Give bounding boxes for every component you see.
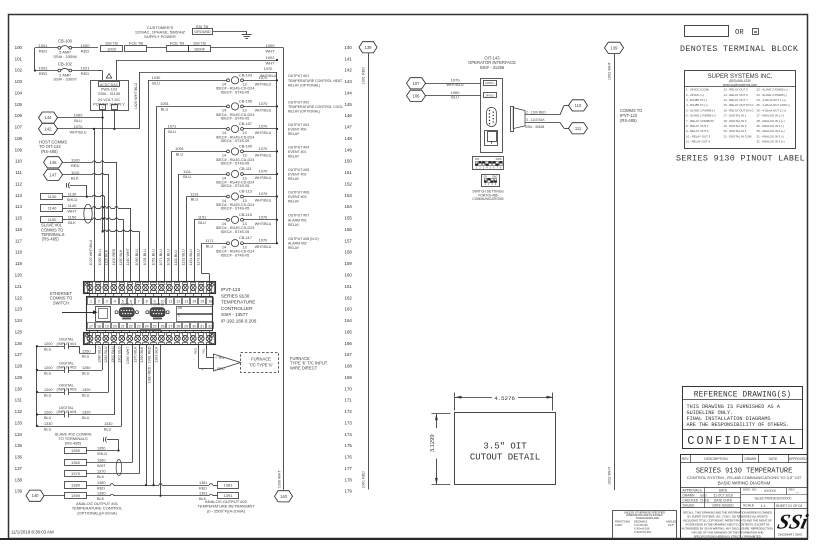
svg-text:155: 155 bbox=[345, 216, 353, 221]
svg-text:110: 110 bbox=[575, 103, 582, 108]
svg-text:DWG. NO.: DWG. NO. bbox=[743, 488, 757, 492]
svg-text:1070: 1070 bbox=[259, 238, 268, 243]
svg-text:REFERENCE DRAWING(S): REFERENCE DRAWING(S) bbox=[694, 392, 792, 400]
svg-text:147: 147 bbox=[50, 172, 58, 177]
svg-text:EVENT #01: EVENT #01 bbox=[288, 150, 306, 154]
svg-text:BLU: BLU bbox=[44, 427, 52, 431]
svg-text:1031 BLU: 1031 BLU bbox=[143, 249, 147, 266]
svg-text:1280: 1280 bbox=[82, 366, 90, 370]
svg-text:RELAY: RELAY bbox=[288, 154, 300, 158]
svg-text:WHT: WHT bbox=[97, 464, 106, 468]
svg-text:1360 WHT: 1360 WHT bbox=[126, 346, 130, 364]
svg-text:SSI# - 33097: SSI# - 33097 bbox=[53, 77, 77, 82]
svg-text:SSI TB: SSI TB bbox=[196, 24, 209, 29]
svg-text:RELAY: RELAY bbox=[288, 177, 300, 181]
svg-text:165: 165 bbox=[345, 329, 353, 334]
svg-text:1111 BLU: 1111 BLU bbox=[174, 250, 178, 266]
svg-text:AUTHORIZED BY SSI IN WRITING,: AUTHORIZED BY SSI IN WRITING, ANY DISCLO… bbox=[682, 527, 774, 531]
svg-text:BLU: BLU bbox=[82, 393, 90, 397]
svg-text:BLU: BLU bbox=[451, 96, 459, 100]
svg-text:22 - SLAVE 2 RS485 (+): 22 - SLAVE 2 RS485 (+) bbox=[757, 88, 788, 92]
svg-text:OUTPUT #01: OUTPUT #01 bbox=[288, 74, 309, 78]
svg-text:6 - SLAVE 1 RS485 (+): 6 - SLAVE 1 RS485 (+) bbox=[686, 114, 716, 118]
svg-text:WHT/BLU: WHT/BLU bbox=[255, 245, 272, 249]
svg-text:142: 142 bbox=[345, 68, 353, 73]
svg-text:18 - DIGITAL IN 2: 18 - DIGITAL IN 2 bbox=[724, 119, 747, 123]
svg-text:SERIES 9130: SERIES 9130 bbox=[221, 293, 250, 298]
svg-text:144: 144 bbox=[45, 115, 53, 120]
svg-text:108: 108 bbox=[15, 136, 23, 141]
svg-text:112: 112 bbox=[15, 181, 23, 186]
svg-text:102: 102 bbox=[15, 68, 23, 73]
svg-text:SERIES 9130 PINOUT LABEL: SERIES 9130 PINOUT LABEL bbox=[676, 154, 805, 164]
svg-text:(INPUT #04: (INPUT #04 bbox=[57, 410, 77, 414]
svg-text:(INPUT #02: (INPUT #02 bbox=[57, 366, 77, 370]
svg-text:WHT: WHT bbox=[265, 60, 275, 65]
svg-text:CHECKED: CHECKED bbox=[683, 499, 699, 503]
svg-text:SSI TB: SSI TB bbox=[105, 40, 118, 45]
svg-text:SSI TB: SSI TB bbox=[193, 40, 206, 45]
svg-text:TEMPERATURE CONTROL COOL: TEMPERATURE CONTROL COOL bbox=[288, 105, 343, 109]
svg-text:APPROVALS: APPROVALS bbox=[683, 488, 702, 492]
svg-text:1110 BLK: 1110 BLK bbox=[104, 249, 108, 265]
svg-text:SSI# - 33096: SSI# - 33096 bbox=[53, 54, 77, 59]
svg-text:175: 175 bbox=[345, 443, 353, 448]
svg-text:136: 136 bbox=[15, 455, 23, 460]
svg-text:1030: 1030 bbox=[152, 75, 161, 80]
svg-text:150: 150 bbox=[345, 159, 353, 164]
svg-text:SSi: SSi bbox=[775, 510, 810, 534]
svg-text:1 - 24VDC (COM): 1 - 24VDC (COM) bbox=[686, 88, 709, 92]
svg-text:CB-105: CB-105 bbox=[239, 98, 252, 103]
svg-text:SCALE: SCALE bbox=[743, 503, 755, 507]
svg-text:BLU: BLU bbox=[82, 371, 90, 375]
svg-text:C: C bbox=[178, 315, 180, 318]
svg-text:3: 3 bbox=[106, 300, 108, 304]
svg-text:164: 164 bbox=[345, 318, 353, 323]
svg-text:+: + bbox=[202, 368, 204, 372]
svg-text:1070: 1070 bbox=[259, 191, 268, 196]
svg-text:OR USE OF THIS DRAWING OR THE: OR USE OF THIS DRAWING OR THE INFORMATIO… bbox=[692, 531, 764, 535]
svg-text:BLU: BLU bbox=[44, 393, 52, 397]
svg-text:146: 146 bbox=[345, 113, 353, 118]
svg-text:1: 1 bbox=[90, 300, 92, 304]
svg-text:1111: 1111 bbox=[183, 169, 191, 174]
svg-text:101: 101 bbox=[15, 56, 23, 61]
svg-text:11 - RELAY OUT 4: 11 - RELAY OUT 4 bbox=[686, 140, 710, 144]
svg-text:OUTPUT #08 (N.O): OUTPUT #08 (N.O) bbox=[288, 237, 319, 241]
svg-text:109: 109 bbox=[15, 147, 23, 152]
svg-text:SSI# - 30628: SSI# - 30628 bbox=[525, 125, 544, 129]
svg-text:134: 134 bbox=[15, 432, 23, 437]
svg-text:IDEC# - ST4S-05: IDEC# - ST4S-05 bbox=[221, 230, 250, 234]
svg-text:1000: 1000 bbox=[81, 43, 91, 48]
svg-text:156: 156 bbox=[345, 227, 353, 232]
svg-text:1390: 1390 bbox=[97, 492, 105, 496]
svg-text:WHT/BLU: WHT/BLU bbox=[255, 153, 272, 157]
svg-text:DESCRIPTION: DESCRIPTION bbox=[704, 457, 728, 461]
svg-text:1020 WHT/BLU: 1020 WHT/BLU bbox=[89, 239, 93, 265]
svg-text:29 - ANALOG IN 2 (-): 29 - ANALOG IN 2 (-) bbox=[757, 124, 785, 128]
svg-text:1300: 1300 bbox=[82, 388, 90, 392]
svg-text:WHT/BLU: WHT/BLU bbox=[255, 108, 272, 112]
svg-text:1151 BLU: 1151 BLU bbox=[189, 249, 193, 265]
svg-text:122: 122 bbox=[15, 295, 23, 300]
svg-text:±0.5°: ±0.5° bbox=[668, 523, 674, 527]
svg-text:OR: OR bbox=[735, 29, 744, 37]
svg-text:—: — bbox=[795, 490, 799, 494]
svg-text:1071: 1071 bbox=[168, 124, 177, 129]
svg-text:1070: 1070 bbox=[259, 146, 268, 151]
svg-text:11: 11 bbox=[169, 300, 173, 304]
svg-text:CUTOUT DETAIL: CUTOUT DETAIL bbox=[470, 452, 540, 462]
svg-text:30: 30 bbox=[192, 324, 196, 328]
svg-text:172: 172 bbox=[345, 409, 353, 414]
svg-text:CONTROLLER: CONTROLLER bbox=[221, 306, 253, 311]
svg-text:24VDC-: 24VDC- bbox=[485, 94, 494, 98]
svg-text:13: 13 bbox=[184, 300, 188, 304]
svg-text:18: 18 bbox=[97, 324, 101, 328]
svg-text:BLK: BLK bbox=[97, 475, 105, 479]
svg-text:10 - RELAY OUT 3: 10 - RELAY OUT 3 bbox=[686, 134, 711, 138]
svg-text:1070: 1070 bbox=[259, 75, 268, 80]
svg-text:WHT/BLU: WHT/BLU bbox=[255, 199, 272, 203]
svg-text:1200: 1200 bbox=[44, 366, 52, 370]
svg-text:147: 147 bbox=[345, 125, 353, 130]
svg-text:1320: 1320 bbox=[82, 411, 90, 415]
svg-text:22: 22 bbox=[129, 324, 133, 328]
svg-text:15: 15 bbox=[200, 300, 204, 304]
svg-text:168: 168 bbox=[345, 364, 353, 369]
svg-text:116: 116 bbox=[15, 227, 23, 232]
svg-text:FRACTIONS: FRACTIONS bbox=[615, 519, 630, 523]
svg-text:19 - DIGITAL IN 3: 19 - DIGITAL IN 3 bbox=[724, 124, 747, 128]
svg-text:1171 BLU: 1171 BLU bbox=[197, 249, 201, 265]
svg-text:1002 WHT: 1002 WHT bbox=[608, 466, 612, 485]
svg-text:1130: 1130 bbox=[68, 192, 77, 197]
svg-text:SHEET 01 OF 02: SHEET 01 OF 02 bbox=[776, 504, 802, 508]
svg-text:OUTPUT #06: OUTPUT #06 bbox=[288, 190, 309, 194]
svg-text:EVENT #02: EVENT #02 bbox=[288, 172, 306, 176]
svg-text:RECALL: THIS DRAWING AND THE I: RECALL: THIS DRAWING AND THE INFORMATION… bbox=[683, 510, 772, 514]
svg-text:POWER SUPPLY: POWER SUPPLY bbox=[93, 102, 125, 107]
svg-text:1290 BLK: 1290 BLK bbox=[140, 346, 144, 363]
svg-text:128: 128 bbox=[15, 364, 23, 369]
svg-text:OUTPUT #04: OUTPUT #04 bbox=[288, 145, 309, 149]
svg-text:BLU: BLU bbox=[176, 152, 184, 157]
svg-text:153: 153 bbox=[345, 193, 353, 198]
svg-text:EVENT #00: EVENT #00 bbox=[288, 127, 306, 131]
svg-text:1380: 1380 bbox=[71, 483, 81, 488]
svg-text:1001 RED: 1001 RED bbox=[362, 471, 366, 489]
svg-text:CB-107: CB-107 bbox=[239, 121, 252, 126]
svg-text:(RS-485): (RS-485) bbox=[42, 237, 59, 242]
svg-text:X.XX=±0.010: X.XX=±0.010 bbox=[634, 526, 650, 530]
svg-text:1200: 1200 bbox=[44, 411, 52, 415]
svg-text:CB-103: CB-103 bbox=[239, 72, 252, 77]
svg-text:WHT: WHT bbox=[265, 48, 275, 53]
svg-text:RED: RED bbox=[71, 163, 80, 168]
svg-text:1391 BLK: 1391 BLK bbox=[155, 346, 159, 363]
svg-text:SSI# - 13577: SSI# - 13577 bbox=[221, 312, 248, 317]
svg-text:BASIC WIRING DIAGRAM: BASIC WIRING DIAGRAM bbox=[718, 481, 771, 486]
svg-text:CB-109: CB-109 bbox=[239, 143, 252, 148]
svg-text:1070: 1070 bbox=[259, 101, 268, 106]
svg-text:BLU: BLU bbox=[161, 107, 169, 112]
svg-text:DATE: DATE bbox=[719, 488, 727, 492]
svg-text:ALARM #02: ALARM #02 bbox=[288, 242, 307, 246]
svg-text:ACDC'DAC: ACDC'DAC bbox=[100, 83, 119, 87]
svg-text:SWITCH: SWITCH bbox=[53, 300, 69, 305]
svg-text:20: 20 bbox=[113, 324, 117, 328]
svg-text:1282 BLU: 1282 BLU bbox=[104, 346, 108, 363]
svg-text:485: 485 bbox=[178, 307, 183, 310]
svg-text:RED: RED bbox=[193, 347, 197, 354]
svg-text:1370 BLK: 1370 BLK bbox=[134, 346, 138, 363]
svg-text:RELAY: RELAY bbox=[288, 132, 300, 136]
svg-text:IDEC# - ST4S-05: IDEC# - ST4S-05 bbox=[221, 162, 250, 166]
svg-text:GROUND: GROUND bbox=[194, 30, 211, 34]
svg-text:159: 159 bbox=[345, 261, 353, 266]
svg-text:1350: 1350 bbox=[97, 447, 105, 451]
svg-text:143: 143 bbox=[345, 79, 353, 84]
svg-text:1110: 1110 bbox=[71, 170, 80, 175]
svg-text:1000F: 1000F bbox=[194, 46, 206, 51]
svg-text:141: 141 bbox=[345, 56, 353, 61]
svg-text:25: 25 bbox=[153, 324, 157, 328]
svg-text:DRAWN: DRAWN bbox=[683, 493, 696, 497]
svg-text:SSI# - 31135: SSI# - 31135 bbox=[98, 92, 120, 96]
svg-text:1260: 1260 bbox=[82, 349, 90, 353]
svg-text:1000: 1000 bbox=[266, 43, 276, 48]
svg-text:1051: 1051 bbox=[160, 101, 169, 106]
svg-text:2: 2 bbox=[98, 300, 100, 304]
svg-text:176: 176 bbox=[345, 455, 353, 460]
svg-text:1100: 1100 bbox=[71, 157, 80, 162]
svg-text:32: 32 bbox=[208, 324, 212, 328]
svg-text:21: 21 bbox=[121, 324, 125, 328]
svg-text:1360: 1360 bbox=[97, 458, 105, 462]
svg-text:115: 115 bbox=[15, 216, 23, 221]
svg-text:160: 160 bbox=[345, 273, 353, 278]
svg-text:FCE TB: FCE TB bbox=[170, 40, 184, 45]
svg-text:145: 145 bbox=[345, 102, 353, 107]
svg-text:19: 19 bbox=[105, 324, 109, 328]
svg-text:167: 167 bbox=[345, 352, 353, 357]
svg-text:(0 - 2500°F)(4-20mA): (0 - 2500°F)(4-20mA) bbox=[207, 508, 246, 513]
svg-text:151: 151 bbox=[345, 170, 353, 175]
svg-text:111: 111 bbox=[575, 126, 582, 131]
svg-text:12 - RELAY OUT 5: 12 - RELAY OUT 5 bbox=[724, 88, 749, 92]
svg-text:31: 31 bbox=[200, 324, 204, 328]
svg-text:29: 29 bbox=[184, 324, 188, 328]
svg-text:166: 166 bbox=[345, 341, 353, 346]
svg-text:CONTROL SYSTEM - RS-485 COMMUN: CONTROL SYSTEM - RS-485 COMMUNICATIONS T… bbox=[687, 475, 802, 480]
svg-text:±1/64": ±1/64" bbox=[615, 523, 622, 527]
svg-text:CB-100: CB-100 bbox=[58, 39, 73, 44]
svg-text:1001: 1001 bbox=[39, 66, 49, 71]
svg-text:RELAY (OPTIONAL): RELAY (OPTIONAL) bbox=[288, 83, 320, 87]
svg-text:1150 BLK: 1150 BLK bbox=[119, 249, 123, 265]
svg-text:1000: 1000 bbox=[107, 46, 117, 51]
svg-text:16 - RELAY OUT 8 N.O: 16 - RELAY OUT 8 N.O bbox=[724, 108, 755, 112]
svg-text:148: 148 bbox=[345, 136, 353, 141]
svg-text:145: 145 bbox=[50, 160, 58, 165]
svg-text:1140: 1140 bbox=[48, 206, 57, 211]
svg-text:SUPPLY POWER: SUPPLY POWER bbox=[144, 34, 176, 39]
svg-text:ALARM #01: ALARM #01 bbox=[288, 218, 307, 222]
svg-text:117: 117 bbox=[15, 238, 23, 243]
svg-text:RELAY: RELAY bbox=[288, 246, 300, 250]
svg-text:RED: RED bbox=[199, 487, 207, 491]
svg-text:IP-192.168.0.200: IP-192.168.0.200 bbox=[221, 319, 257, 324]
svg-text:32 - ANALOG IN 3 (+): 32 - ANALOG IN 3 (+) bbox=[757, 140, 785, 144]
svg-text:8: 8 bbox=[146, 300, 148, 304]
svg-text:IDEC# - ST4S-05: IDEC# - ST4S-05 bbox=[221, 207, 250, 211]
svg-text:DECIMALS: DECIMALS bbox=[634, 519, 648, 523]
svg-text:BLU: BLU bbox=[82, 416, 90, 420]
svg-text:1380: 1380 bbox=[97, 481, 105, 485]
svg-text:144: 144 bbox=[345, 90, 353, 95]
svg-text:169: 169 bbox=[345, 375, 353, 380]
svg-text:BLU: BLU bbox=[198, 220, 206, 225]
svg-text:REV.: REV. bbox=[682, 457, 689, 461]
svg-text:DATE CHKD: DATE CHKD bbox=[714, 499, 733, 503]
svg-text:1021: 1021 bbox=[81, 66, 91, 71]
svg-text:23: 23 bbox=[137, 324, 141, 328]
svg-text:1381: 1381 bbox=[199, 481, 207, 485]
svg-text:XXXXX: XXXXX bbox=[764, 489, 777, 493]
svg-text:113: 113 bbox=[15, 193, 23, 198]
svg-text:1130: 1130 bbox=[48, 194, 57, 199]
svg-text:1370: 1370 bbox=[71, 471, 81, 476]
svg-text:1391: 1391 bbox=[224, 493, 234, 498]
svg-text:170: 170 bbox=[345, 386, 353, 391]
svg-text:1020 WHT/BLU: 1020 WHT/BLU bbox=[134, 82, 138, 109]
svg-text:178: 178 bbox=[345, 477, 353, 482]
svg-text:24 - 4-20mA OUT 1 (+): 24 - 4-20mA OUT 1 (+) bbox=[757, 98, 786, 102]
svg-text:IDEC# - ST4S-05: IDEC# - ST4S-05 bbox=[221, 253, 250, 257]
svg-text:BLU: BLU bbox=[104, 427, 112, 431]
svg-text:IPVT-123: IPVT-123 bbox=[221, 287, 241, 292]
svg-text:24: 24 bbox=[145, 324, 149, 328]
svg-text:ON: ON bbox=[483, 174, 487, 178]
svg-text:RELAY (OPTIONAL): RELAY (OPTIONAL) bbox=[288, 109, 320, 113]
svg-text:CINCINNATI, OHIO: CINCINNATI, OHIO bbox=[778, 533, 803, 537]
svg-text:\\ELECTRONICS\XXXXX\: \\ELECTRONICS\XXXXX\ bbox=[755, 497, 792, 501]
svg-text:T/C TYPE 'K': T/C TYPE 'K' bbox=[249, 363, 273, 368]
svg-text:106: 106 bbox=[15, 113, 23, 118]
svg-text:1002: 1002 bbox=[266, 55, 276, 60]
svg-text:4.5276: 4.5276 bbox=[494, 395, 515, 402]
svg-text:135: 135 bbox=[15, 443, 23, 448]
svg-text:24VDC+: 24VDC+ bbox=[485, 81, 495, 85]
svg-text:1350: 1350 bbox=[71, 448, 81, 453]
svg-text:RED: RED bbox=[81, 71, 90, 76]
svg-text:104: 104 bbox=[15, 90, 23, 95]
svg-text:1:1: 1:1 bbox=[761, 504, 766, 508]
svg-text:124: 124 bbox=[15, 318, 23, 323]
svg-text:OUTPUT #07: OUTPUT #07 bbox=[288, 214, 309, 218]
svg-text:118: 118 bbox=[15, 250, 23, 255]
svg-text:1302 BLU: 1302 BLU bbox=[117, 346, 121, 363]
svg-text:1091 BLU: 1091 BLU bbox=[167, 249, 171, 266]
svg-text:21 - DIGITAL IN COM: 21 - DIGITAL IN COM bbox=[724, 134, 753, 138]
svg-text:CHKD: CHKD bbox=[700, 499, 710, 503]
svg-text:RED: RED bbox=[81, 48, 90, 53]
svg-text:X.XXX=±0.001: X.XXX=±0.001 bbox=[634, 530, 652, 534]
svg-text:POSSESSION IN THE DRAWING AND: POSSESSION IN THE DRAWING AND ITS CONTEN… bbox=[686, 523, 770, 527]
svg-text:1070: 1070 bbox=[259, 169, 268, 174]
svg-text:TEMPERATURE: TEMPERATURE bbox=[221, 300, 255, 305]
svg-text:ANGLES: ANGLES bbox=[666, 519, 677, 523]
svg-text:3 - RS485 TX (-): 3 - RS485 TX (-) bbox=[686, 98, 707, 102]
svg-text:1100 RED: 1100 RED bbox=[112, 248, 116, 265]
svg-text:COMMUNICATIONS: COMMUNICATIONS bbox=[472, 197, 504, 201]
svg-text:1380 RED / 1381 RED: 1380 RED / 1381 RED bbox=[148, 346, 152, 383]
svg-text:139: 139 bbox=[611, 45, 619, 50]
svg-text:179: 179 bbox=[345, 489, 353, 494]
svg-text:1370: 1370 bbox=[97, 469, 105, 473]
svg-text:1071 BLU: 1071 BLU bbox=[159, 249, 163, 266]
svg-text:127: 127 bbox=[15, 352, 23, 357]
svg-text:103: 103 bbox=[15, 79, 23, 84]
svg-text:27 - ANALOG IN 1 (-): 27 - ANALOG IN 1 (-) bbox=[757, 114, 785, 118]
svg-text:1070: 1070 bbox=[451, 77, 461, 82]
svg-text:1330: 1330 bbox=[104, 422, 112, 426]
svg-text:161: 161 bbox=[345, 284, 353, 289]
svg-text:27: 27 bbox=[168, 324, 172, 328]
svg-text:23 - SLAVE 2 RS485 (-): 23 - SLAVE 2 RS485 (-) bbox=[757, 93, 788, 97]
svg-text:20 - DIGITAL IN 4: 20 - DIGITAL IN 4 bbox=[724, 129, 747, 133]
svg-text:15 - RELAY OUT 8 N.C: 15 - RELAY OUT 8 N.C bbox=[724, 103, 754, 107]
svg-text:1060: 1060 bbox=[451, 90, 461, 95]
svg-text:BLU: BLU bbox=[152, 81, 160, 86]
svg-text:2 - 1100 RED: 2 - 1100 RED bbox=[526, 110, 546, 114]
svg-text:1150: 1150 bbox=[68, 214, 77, 219]
svg-text:1060: 1060 bbox=[74, 113, 84, 118]
svg-text:1330: 1330 bbox=[44, 422, 52, 426]
svg-text:BLU: BLU bbox=[74, 118, 82, 123]
svg-text:4: 4 bbox=[114, 300, 116, 304]
svg-text:CB-102: CB-102 bbox=[58, 61, 73, 66]
svg-text:+: + bbox=[102, 105, 104, 109]
svg-text:BLU: BLU bbox=[44, 416, 52, 420]
svg-text:(RS-485): (RS-485) bbox=[65, 441, 82, 446]
svg-text:1131: 1131 bbox=[190, 191, 198, 196]
svg-text:3.5" OIT: 3.5" OIT bbox=[483, 441, 527, 451]
svg-text:BLU: BLU bbox=[168, 129, 176, 134]
svg-text:SW8: SW8 bbox=[495, 157, 502, 161]
svg-text:FURNACE: FURNACE bbox=[251, 356, 271, 361]
svg-text:PORT B: PORT B bbox=[151, 302, 164, 306]
svg-text:SPECIFICATIONS HEREIN IS STRIC: SPECIFICATIONS HEREIN IS STRICTLY PROHIB… bbox=[694, 535, 762, 539]
svg-text:(INPUT #03: (INPUT #03 bbox=[57, 388, 77, 392]
svg-text:1200: 1200 bbox=[44, 388, 52, 392]
svg-text:BLK: BLK bbox=[71, 175, 79, 180]
svg-text:WIRE DIRECT: WIRE DIRECT bbox=[290, 365, 318, 370]
svg-text:16: 16 bbox=[208, 300, 212, 304]
svg-text:WHT/BLU: WHT/BLU bbox=[255, 176, 272, 180]
svg-text:9 - RELAY OUT 2: 9 - RELAY OUT 2 bbox=[686, 129, 709, 133]
svg-text:14 - RELAY OUT 7: 14 - RELAY OUT 7 bbox=[724, 98, 749, 102]
svg-text:(INPUT #01: (INPUT #01 bbox=[57, 342, 77, 346]
svg-text:GJG: GJG bbox=[700, 493, 707, 497]
svg-text:1001: 1001 bbox=[39, 43, 49, 48]
svg-text:30 - ANALOG IN 2 (+): 30 - ANALOG IN 2 (+) bbox=[757, 129, 785, 133]
svg-text:OUTPUT #03: OUTPUT #03 bbox=[288, 123, 309, 127]
svg-text:1070: 1070 bbox=[264, 66, 273, 71]
